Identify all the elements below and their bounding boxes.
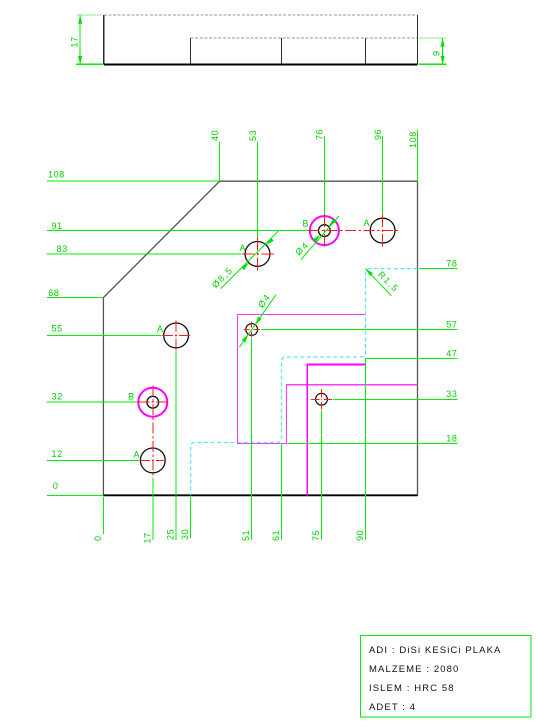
top view step vertical at 90 [365,38,367,64]
dim line 18 right [288,442,458,444]
hole A1 crosshair [242,238,274,271]
hole C1 crosshair [244,321,260,337]
svg-text:30: 30 [180,529,190,540]
svg-text:17: 17 [142,532,152,543]
right dimension labels [446,259,457,444]
top view left edge [103,15,105,64]
hole B2 crosshair horizontal [138,401,168,403]
cyan dashed step contour [191,269,418,496]
svg-text:96: 96 [373,129,383,140]
svg-text:91: 91 [52,221,63,231]
svg-text:47: 47 [446,349,457,359]
hole A1 circle [245,242,270,267]
diameter dimension 4 at C1 [240,292,277,347]
radius dimension R1,5 at cyan corner [364,267,401,296]
svg-text:53: 53 [248,130,258,141]
pink zigzag contour [237,314,417,443]
plate outline (main view) [103,181,417,495]
svg-text:ADET : 4: ADET : 4 [369,702,416,713]
hole A3 crosshair horizontal [140,459,166,461]
top view step vertical at 30 [190,38,192,64]
hole B2 magenta circle [138,388,167,417]
top view step vertical at 61 [281,38,283,64]
centerline B2 to A3 [152,386,154,477]
svg-text:108: 108 [408,131,418,148]
svg-text:51: 51 [241,530,251,541]
diameter dimension 4 at B1 [293,216,339,260]
dim line 0 left [47,494,103,496]
svg-text:12: 12 [52,449,63,459]
svg-text:0: 0 [53,481,59,491]
hole B1 crosshair vertical [323,215,325,247]
dim line 96 top [382,136,384,214]
dimension 17 (top view left) [70,15,104,64]
svg-text:55: 55 [52,324,63,334]
magenta inner contour [307,364,365,495]
dim line 90 bottom [365,359,367,541]
dimension 9 (top view right) [419,38,446,64]
svg-text:ADI : DiSi KESiCi PLAKA: ADI : DiSi KESiCi PLAKA [369,645,501,656]
left dimension lines [47,181,308,495]
hole A2 circle [164,323,189,348]
svg-text:A: A [364,218,371,228]
dim line 55 left [47,334,162,336]
dim line 12 left [47,459,140,461]
svg-text:108: 108 [48,170,65,180]
svg-text:40: 40 [210,130,220,141]
svg-text:90: 90 [355,530,365,541]
svg-text:9: 9 [432,50,442,56]
svg-text:B: B [128,392,135,402]
svg-text:A: A [157,324,164,334]
dim line 76 top [323,136,325,214]
bottom dimension lines [103,339,365,541]
svg-text:33: 33 [446,389,457,399]
svg-text:17: 17 [70,36,80,47]
svg-text:18: 18 [446,434,457,444]
svg-text:68: 68 [48,288,59,298]
right dimension lines [261,269,458,444]
dim line 30 bottom [190,497,192,538]
svg-text:25: 25 [166,529,176,540]
svg-text:A: A [134,450,141,460]
top view right edge [417,15,419,64]
dim line 25 bottom [175,351,177,540]
dim line 32 left [47,401,138,403]
plate bottom edge heavy [103,494,417,496]
svg-text:B: B [303,219,310,229]
dim line 57 right [261,329,458,331]
svg-text:83: 83 [57,244,68,254]
hole A4 circle [370,218,395,243]
svg-text:MALZEME : 2080: MALZEME : 2080 [369,664,459,675]
svg-text:32: 32 [52,392,63,402]
hole B1 magenta circle [310,216,339,245]
title block frame [360,636,531,718]
dim line 53 top [257,142,259,238]
svg-text:76: 76 [315,129,325,140]
dim line 91 left [47,230,308,232]
svg-text:A: A [240,243,247,253]
svg-text:0: 0 [93,535,103,541]
svg-text:75: 75 [311,530,321,541]
top view outline [104,15,418,64]
hole A4 crosshair vertical [382,215,384,247]
top view bottom edge [104,64,418,66]
hole C1 circle [246,324,258,336]
top dimension labels [210,129,418,148]
dim line 78 right [419,268,457,270]
dim line 40 top [219,142,221,182]
hole C2 crosshair [311,389,332,410]
dim line 83 left [47,253,242,255]
hole A2 crosshair [162,321,190,351]
hole A3 circle [140,448,165,473]
dim line 33 right [333,398,458,400]
dim line 61 bottom [281,444,283,541]
dim line 51 bottom [251,339,253,541]
top dimension lines [220,130,418,237]
hole C2 circle [316,393,328,405]
dim line 0 bottom [102,497,104,534]
left dimension labels [48,170,68,492]
top view hidden step line [191,37,418,39]
dim line 68 left [47,297,103,299]
dim line 17 bottom [152,478,154,541]
top view hidden top edge [104,14,418,16]
dim line 108 top [417,130,419,181]
title block text [369,645,501,713]
diameter dimension 8.5 at A1 [210,231,278,290]
dim line 75 bottom [321,411,323,541]
bottom dimension labels [93,529,365,544]
centerline B1 to A4 [308,230,399,232]
svg-text:61: 61 [271,530,281,541]
hole B1 circle [319,225,331,237]
svg-text:ISLEM : HRC 58: ISLEM : HRC 58 [369,683,455,694]
hole B2 circle [147,396,159,408]
svg-text:78: 78 [446,259,457,269]
svg-text:57: 57 [446,320,457,330]
dim line 47 right [366,358,458,360]
dim line 108 left [47,180,220,182]
